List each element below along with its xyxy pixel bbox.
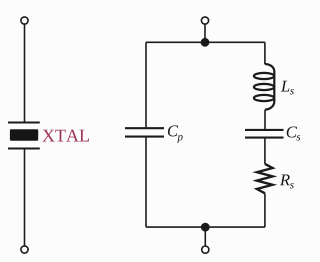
label Cp xyxy=(168,125,183,142)
label XTAL xyxy=(42,130,89,142)
terminal bottom-left xyxy=(21,246,28,253)
terminal top-left xyxy=(21,17,28,24)
wire xyxy=(24,150,26,246)
resistor Rs xyxy=(257,164,273,193)
wire bottom rail xyxy=(146,226,265,228)
crystal XTAL top plate xyxy=(8,122,40,124)
wire top rail xyxy=(146,41,265,43)
wire xyxy=(24,24,26,122)
wire left branch lower xyxy=(145,138,147,228)
terminal top-center xyxy=(201,17,208,24)
capacitor Cs xyxy=(245,130,284,138)
label Cs xyxy=(287,126,301,140)
node bottom junction xyxy=(201,223,210,232)
crystal XTAL bottom plate xyxy=(8,148,40,150)
wire xyxy=(264,139,266,164)
wire xyxy=(264,110,266,130)
wire xyxy=(204,227,206,246)
node top junction xyxy=(201,38,210,47)
inductor Ls xyxy=(254,64,274,110)
wire left branch upper xyxy=(145,42,147,127)
wire xyxy=(204,24,206,40)
label Rs xyxy=(280,174,294,188)
crystal XTAL body xyxy=(10,129,38,141)
capacitor Cp xyxy=(125,128,164,136)
label Ls xyxy=(281,81,294,95)
wire xyxy=(264,193,266,227)
terminal bottom-center xyxy=(202,246,209,253)
wire right branch upper xyxy=(264,42,266,64)
